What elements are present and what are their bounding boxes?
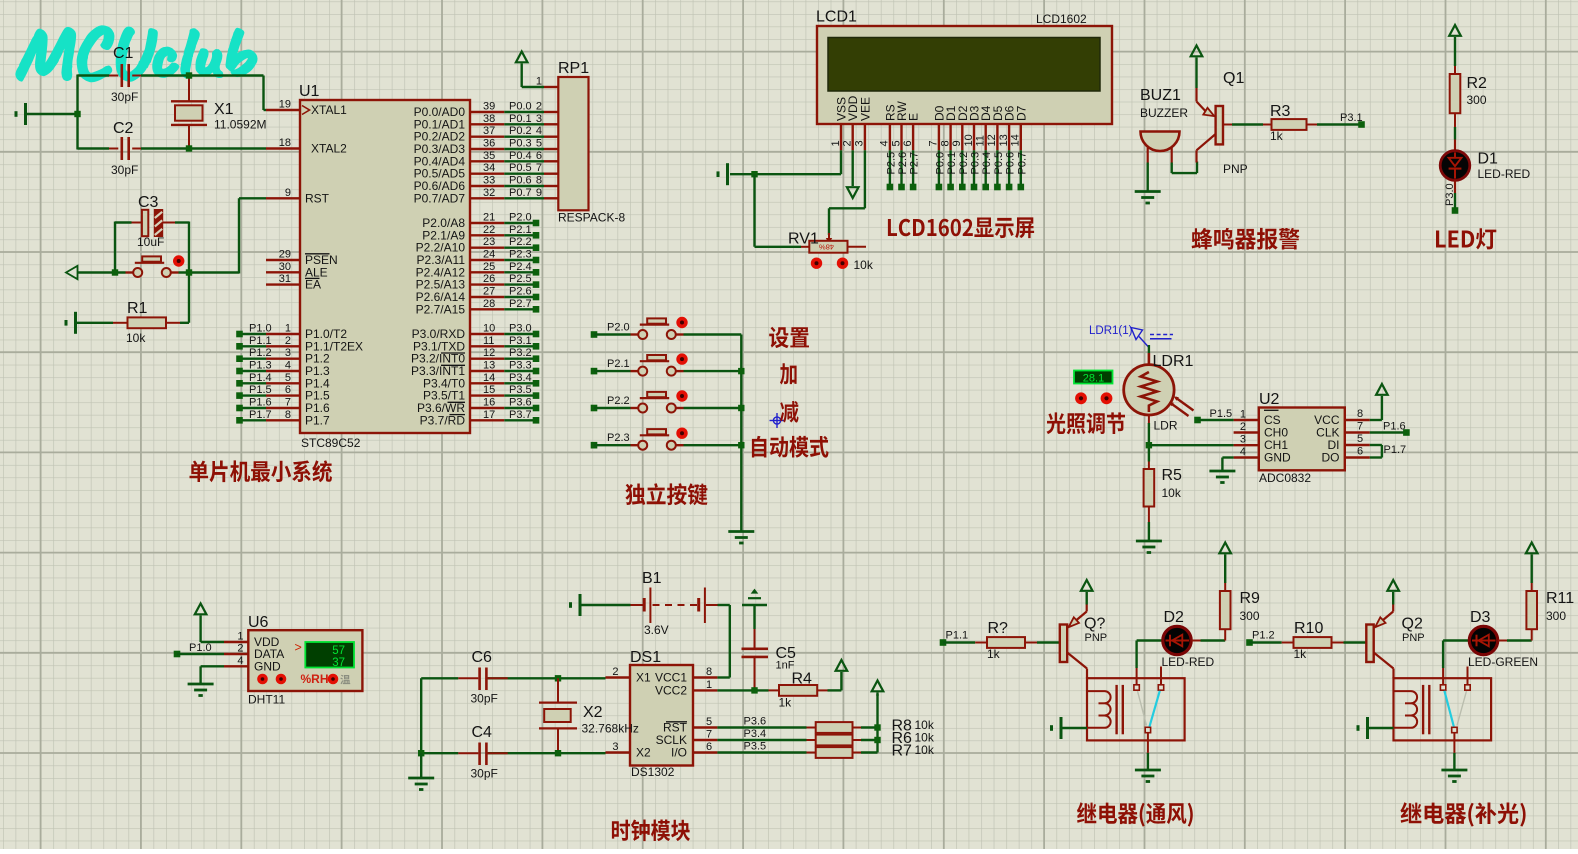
U1 pin 33 P0.6 bbox=[414, 175, 505, 194]
U1 pin 15 P3.5 bbox=[423, 384, 504, 403]
wire P1.5 terminal bbox=[236, 384, 271, 399]
transistor Q2 PNP bbox=[1366, 605, 1424, 679]
svg-text:1: 1 bbox=[285, 323, 291, 335]
U2 pin 7 CLK bbox=[1316, 421, 1370, 440]
ground (B1) bbox=[571, 594, 631, 616]
wire P1.2 to R10 bbox=[1250, 641, 1282, 643]
wire buzzer left to ground bbox=[1147, 147, 1149, 191]
svg-text:36: 36 bbox=[483, 138, 495, 150]
svg-text:X1: X1 bbox=[214, 101, 234, 118]
svg-text:P3.0: P3.0 bbox=[1444, 183, 1456, 206]
node P2.1 terminal bbox=[591, 358, 630, 374]
ground (relay pole Q2) bbox=[1441, 770, 1467, 782]
U1 pin 32 P0.7 bbox=[414, 187, 505, 206]
junction bus row4 bbox=[738, 442, 744, 448]
svg-text:8: 8 bbox=[1357, 408, 1363, 420]
svg-text:Q?: Q? bbox=[1084, 616, 1105, 633]
svg-text:BUZ1: BUZ1 bbox=[1140, 87, 1181, 104]
svg-text:8: 8 bbox=[285, 409, 291, 421]
svg-text:P2.7: P2.7 bbox=[509, 298, 532, 310]
potentiometer RV1 bbox=[788, 231, 874, 273]
LCD1 pin 6 E bbox=[902, 113, 921, 150]
svg-text:8: 8 bbox=[536, 175, 542, 187]
junction bus row3 bbox=[738, 405, 744, 411]
svg-text:2: 2 bbox=[285, 335, 291, 347]
voltage probe LDR1(1) bbox=[1089, 325, 1173, 347]
power terminal (Q1 emitter) bbox=[1191, 46, 1203, 89]
LCD1 pin 1 VSS bbox=[830, 97, 849, 150]
wire P3.1 terminal bbox=[504, 335, 539, 350]
U1 pin 19 XTAL1 bbox=[266, 99, 347, 118]
U1 pin 26 P2.5 bbox=[416, 273, 505, 292]
power terminal (U2 VCC) bbox=[1370, 384, 1388, 420]
U1 pin 6 P1.5 bbox=[266, 384, 330, 403]
svg-text:P0.5: P0.5 bbox=[509, 162, 532, 174]
wire P1.1 terminal bbox=[236, 335, 271, 350]
svg-text:P2.2: P2.2 bbox=[607, 395, 630, 407]
svg-text:LDR1: LDR1 bbox=[1153, 353, 1194, 370]
label LCD1602 display (chinese) bbox=[888, 217, 1034, 238]
svg-text:U2: U2 bbox=[1259, 391, 1280, 408]
resistor R7 bbox=[807, 743, 935, 760]
svg-text:P1.1: P1.1 bbox=[946, 630, 969, 642]
svg-text:P3.1: P3.1 bbox=[509, 335, 532, 347]
capacitor C4 bbox=[458, 724, 507, 781]
U1 pin 35 P0.4 bbox=[414, 150, 505, 169]
svg-text:P0.4: P0.4 bbox=[981, 152, 993, 175]
svg-text:P2.5: P2.5 bbox=[509, 273, 532, 285]
op U1 body STC89C52 bbox=[299, 83, 470, 450]
svg-text:1: 1 bbox=[1240, 409, 1246, 421]
wire R3 to P3.1 bbox=[1317, 123, 1362, 125]
photoresistor LDR1 bbox=[1124, 353, 1194, 433]
capacitor C5 bbox=[742, 629, 797, 690]
svg-text:P0.6: P0.6 bbox=[509, 175, 532, 187]
wire contact to D3 bbox=[1443, 641, 1469, 685]
wire button P2.2 to bus bbox=[684, 407, 742, 409]
U1 pin 34 P0.5 bbox=[414, 162, 505, 181]
svg-text:P2.2: P2.2 bbox=[509, 236, 532, 248]
svg-text:LED-RED: LED-RED bbox=[1162, 655, 1215, 669]
wire LCD RS to net P2.5 bbox=[885, 150, 897, 190]
svg-text:C1: C1 bbox=[113, 45, 134, 62]
junction reset/RST rail bbox=[186, 269, 192, 275]
node P2.0 terminal bbox=[591, 322, 630, 338]
node XTAL1/X1 junction bbox=[186, 72, 192, 78]
ground (U6) bbox=[188, 684, 214, 696]
DS1 pin 3 X2 bbox=[606, 741, 652, 760]
wire CLK to P1.6 bbox=[1370, 431, 1405, 433]
RP1 pin 4 bbox=[536, 125, 558, 137]
U1 pin 5 P1.4 bbox=[266, 372, 330, 391]
svg-text:300: 300 bbox=[1240, 609, 1260, 623]
relay coil+frame (Q?) bbox=[1087, 678, 1185, 740]
svg-text:4: 4 bbox=[237, 655, 243, 667]
svg-text:4: 4 bbox=[1240, 446, 1246, 458]
LCD1 pin 8 D1 bbox=[939, 105, 958, 150]
wire R2 to D1 bbox=[1454, 127, 1456, 152]
relay coil+frame (Q2) bbox=[1394, 678, 1492, 740]
resistor R9 300 bbox=[1220, 583, 1260, 641]
ground (button bus) bbox=[728, 532, 754, 544]
wire button common bus bbox=[740, 335, 742, 531]
RP1 pin 2 bbox=[536, 101, 558, 113]
LCD1 pin 14 D7 bbox=[1010, 105, 1029, 150]
svg-text:P3.4: P3.4 bbox=[509, 372, 532, 384]
node P1.2 terminal bbox=[1246, 630, 1274, 646]
svg-text:3: 3 bbox=[612, 741, 618, 753]
svg-text:37: 37 bbox=[483, 125, 495, 137]
wire P2.2 to button bbox=[594, 407, 631, 409]
push button (P2.0) bbox=[631, 318, 684, 339]
svg-text:D7: D7 bbox=[1014, 105, 1028, 121]
LCD1 pin 7 D0 bbox=[928, 105, 947, 150]
wire P3.7 terminal bbox=[504, 409, 539, 424]
wire P3.3 terminal bbox=[504, 360, 539, 375]
wire P1.3 terminal bbox=[236, 360, 271, 375]
DS1 pin 1 VCC2 bbox=[655, 679, 717, 698]
svg-text:57: 57 bbox=[332, 645, 345, 657]
svg-text:%RH: %RH bbox=[301, 672, 329, 686]
label relay light (chinese) bbox=[1400, 802, 1525, 826]
RP1 pin 9 bbox=[536, 187, 558, 199]
wire P1.0 terminal bbox=[236, 323, 271, 338]
svg-text:1k: 1k bbox=[987, 647, 1001, 661]
svg-text:16: 16 bbox=[483, 397, 495, 409]
svg-text:VCC2: VCC2 bbox=[655, 683, 687, 697]
svg-text:9: 9 bbox=[285, 187, 291, 199]
junction VSS/RV1 rail bbox=[751, 171, 757, 177]
svg-text:R7: R7 bbox=[892, 743, 913, 760]
LCD1 pin 4 RS bbox=[879, 104, 898, 150]
wire C4 row bbox=[421, 752, 605, 754]
label clock module (chinese) bbox=[612, 820, 690, 842]
resistor R4 bbox=[769, 671, 828, 710]
svg-text:P1.6: P1.6 bbox=[249, 397, 272, 409]
junction bus R8 bbox=[874, 724, 880, 730]
svg-text:P2.4: P2.4 bbox=[509, 261, 532, 273]
wire VSS to ground bbox=[730, 150, 841, 174]
svg-text:P2.0: P2.0 bbox=[509, 212, 532, 224]
label buzzer alarm (chinese) bbox=[1192, 228, 1300, 250]
svg-text:P0.3: P0.3 bbox=[509, 138, 532, 150]
relay blade (Q2) bbox=[1444, 691, 1466, 727]
svg-text:22: 22 bbox=[483, 224, 495, 236]
svg-text:300: 300 bbox=[1546, 609, 1566, 623]
junction LDR/R5/CH1 bbox=[1146, 442, 1152, 448]
svg-text:XTAL1: XTAL1 bbox=[311, 103, 347, 117]
svg-text:33: 33 bbox=[483, 175, 495, 187]
U2 pin 1 CS bbox=[1234, 409, 1281, 428]
svg-text:D2: D2 bbox=[1164, 609, 1185, 626]
svg-text:P0.1: P0.1 bbox=[509, 113, 532, 125]
U1 pin 28 P2.7 bbox=[416, 298, 505, 317]
svg-text:LED-GREEN: LED-GREEN bbox=[1468, 655, 1538, 669]
svg-text:6: 6 bbox=[285, 384, 291, 396]
U1 pin 31 EA bbox=[266, 273, 321, 292]
wire C3 left leg bbox=[115, 222, 132, 273]
svg-text:3: 3 bbox=[285, 347, 291, 359]
svg-text:P0.2: P0.2 bbox=[958, 152, 970, 175]
wire reset row bbox=[78, 198, 267, 273]
U6 display bbox=[295, 641, 355, 669]
svg-text:P1.7: P1.7 bbox=[1384, 444, 1407, 456]
origin marker bbox=[770, 413, 785, 428]
svg-text:30pF: 30pF bbox=[111, 90, 138, 104]
svg-text:6: 6 bbox=[902, 140, 914, 146]
wire R1 right bbox=[180, 322, 189, 324]
wire R7 to pullup bus bbox=[861, 751, 878, 753]
svg-text:VCC1: VCC1 bbox=[655, 671, 687, 685]
svg-text:U6: U6 bbox=[248, 614, 269, 631]
svg-text:BUZZER: BUZZER bbox=[1140, 106, 1188, 120]
svg-text:3.6V: 3.6V bbox=[644, 623, 669, 637]
ground (U2) bbox=[1209, 471, 1235, 483]
capacitor C3 (polarized) bbox=[132, 194, 176, 249]
svg-text:P1.0: P1.0 bbox=[249, 323, 272, 335]
wire buzzer right to Q1 collector bbox=[1172, 147, 1197, 174]
wire P2.7 terminal bbox=[504, 298, 539, 313]
svg-text:>: > bbox=[295, 641, 302, 655]
svg-text:U1: U1 bbox=[299, 83, 320, 100]
svg-text:3: 3 bbox=[536, 113, 542, 125]
svg-text:R9: R9 bbox=[1240, 590, 1261, 607]
wire P1.0 to DATA bbox=[177, 653, 224, 655]
U1 pin 36 P0.3 bbox=[414, 138, 505, 157]
power rail terminal (C5) bbox=[742, 589, 767, 629]
svg-text:28.1: 28.1 bbox=[1083, 372, 1104, 384]
op DS1 body DS1302 bbox=[630, 649, 693, 779]
svg-text:LCD1: LCD1 bbox=[816, 9, 857, 26]
svg-text:P0.4: P0.4 bbox=[509, 150, 532, 162]
node P1.5 terminal bbox=[1194, 408, 1232, 423]
U6 adjust knobs bbox=[257, 674, 286, 685]
relay contacts (Q2) bbox=[1440, 667, 1470, 733]
label auto mode (chinese) bbox=[752, 436, 829, 458]
wire DS1 to R7 bbox=[717, 741, 806, 753]
wire R6 to pullup bus bbox=[861, 739, 878, 741]
wire P2.0 to button bbox=[594, 333, 631, 335]
junction bus row2 bbox=[738, 368, 744, 374]
wire LCD D0 to net P0.0 bbox=[934, 150, 946, 190]
ground (osc rail) bbox=[408, 778, 434, 790]
wire contact to D2 bbox=[1137, 641, 1163, 685]
label independent keys (chinese) bbox=[625, 483, 707, 505]
resistor R10 1k bbox=[1282, 620, 1344, 661]
ground (LCD VSS) bbox=[718, 163, 728, 185]
svg-text:11.0592M: 11.0592M bbox=[214, 118, 266, 132]
wire rail to ground bbox=[420, 753, 422, 777]
svg-text:LDR: LDR bbox=[1154, 419, 1178, 433]
ground (relay coil Q?) bbox=[1052, 717, 1088, 739]
diode D1 LED-RED bbox=[1440, 151, 1530, 182]
wire relay pole to ground (Q?) bbox=[1147, 733, 1149, 769]
RP1 pin 8 bbox=[536, 175, 558, 187]
wire LCD D1 to net P0.1 bbox=[946, 150, 958, 190]
node P2.3 terminal bbox=[591, 432, 630, 448]
label relay fan (chinese) bbox=[1077, 802, 1193, 826]
U2 pin 3 CH1 bbox=[1234, 434, 1289, 453]
wire U6 GND bbox=[201, 666, 224, 683]
svg-text:P0.1: P0.1 bbox=[946, 152, 958, 175]
svg-text:4: 4 bbox=[536, 125, 542, 137]
button actuator dot (P2.0) bbox=[676, 317, 687, 328]
svg-text:P0.0: P0.0 bbox=[509, 101, 532, 113]
svg-text:2: 2 bbox=[1240, 421, 1246, 433]
wire C3 right leg / RST rail bbox=[175, 222, 189, 323]
wire DS1 to R6 bbox=[717, 728, 806, 740]
svg-text:P0.5: P0.5 bbox=[993, 152, 1005, 175]
U1 pin 23 P2.2 bbox=[416, 236, 505, 255]
svg-text:9: 9 bbox=[951, 140, 963, 146]
wire pullup bus bbox=[876, 694, 878, 753]
U1 pin 8 P1.7 bbox=[266, 409, 330, 428]
wire P2.3 to button bbox=[594, 444, 631, 446]
svg-text:I/O: I/O bbox=[671, 746, 687, 760]
svg-text:C2: C2 bbox=[113, 120, 134, 137]
U1 pin 4 P1.3 bbox=[266, 360, 330, 379]
svg-text:P1.7: P1.7 bbox=[305, 413, 330, 427]
svg-text:27: 27 bbox=[483, 286, 495, 298]
svg-text:28: 28 bbox=[483, 298, 495, 310]
svg-text:LCD1602: LCD1602 bbox=[1036, 12, 1087, 26]
power terminal (R9) bbox=[1219, 543, 1231, 584]
svg-text:4: 4 bbox=[879, 140, 891, 146]
svg-text:P1.1: P1.1 bbox=[249, 335, 272, 347]
svg-text:P0.2: P0.2 bbox=[509, 125, 532, 137]
power terminal (Q2) bbox=[1387, 580, 1399, 605]
svg-text:3: 3 bbox=[854, 140, 866, 146]
U6 pin 4 GND bbox=[224, 655, 281, 674]
resistor R8 bbox=[807, 718, 935, 735]
power terminal (RP1) bbox=[516, 52, 544, 88]
junction left rail bbox=[74, 111, 80, 117]
power terminal (R4) bbox=[828, 660, 848, 690]
U2 pin 8 VCC bbox=[1314, 408, 1370, 427]
svg-text:P3.5: P3.5 bbox=[509, 384, 532, 396]
U1 pin 14 P3.4 bbox=[423, 372, 504, 391]
resistor R2 bbox=[1450, 66, 1487, 127]
svg-text:VEE: VEE bbox=[858, 97, 872, 121]
ground (XTAL net) bbox=[16, 103, 78, 125]
capacitor C1 bbox=[109, 45, 141, 104]
LCD1 pin 9 D2 bbox=[951, 105, 970, 150]
transistor Q1 PNP bbox=[1197, 70, 1248, 176]
U1 pin 16 P3.6 bbox=[417, 397, 504, 416]
wire P2.0 terminal bbox=[504, 212, 539, 227]
wire button P2.3 to bus bbox=[684, 444, 742, 446]
svg-text:P3.7: P3.7 bbox=[509, 409, 532, 421]
svg-text:P1.2: P1.2 bbox=[249, 347, 272, 359]
svg-text:P3.2: P3.2 bbox=[509, 347, 532, 359]
U1 pin 25 P2.4 bbox=[416, 261, 505, 280]
ground (relay coil Q2) bbox=[1358, 717, 1394, 739]
svg-text:6: 6 bbox=[706, 741, 712, 753]
svg-text:10uF: 10uF bbox=[137, 235, 164, 249]
svg-text:Q2: Q2 bbox=[1402, 616, 1423, 633]
wire DI/DO tie P1.7 bbox=[1370, 444, 1406, 458]
svg-text:R4: R4 bbox=[792, 671, 813, 688]
ground (R5) bbox=[1136, 541, 1162, 553]
U1 pin 11 P3.1 bbox=[413, 335, 504, 354]
wire LCD D7 to net P0.7 bbox=[1016, 150, 1028, 190]
wire LCD D2 to net P0.2 bbox=[958, 150, 970, 190]
LCD1 pin 13 D6 bbox=[998, 105, 1017, 150]
junction C4/X2 bbox=[555, 750, 561, 756]
U1 pin 3 P1.2 bbox=[266, 347, 330, 366]
wire DS1 to R8 bbox=[717, 716, 806, 728]
svg-text:E: E bbox=[907, 113, 921, 121]
wire P1.5 to CS bbox=[1198, 419, 1234, 421]
svg-text:7: 7 bbox=[536, 162, 542, 174]
svg-text:R5: R5 bbox=[1162, 467, 1183, 484]
power terminal (U6 VDD) bbox=[195, 604, 224, 643]
svg-text:P1.2: P1.2 bbox=[1252, 630, 1275, 642]
LDR1 value display bbox=[1074, 371, 1113, 385]
wire P0.2 to RP1 bbox=[504, 125, 544, 137]
svg-text:13: 13 bbox=[998, 134, 1010, 146]
svg-text:11: 11 bbox=[483, 335, 494, 347]
label MCU minimal system (chinese) bbox=[190, 460, 332, 482]
LDR1 adjust knobs bbox=[1075, 392, 1112, 404]
svg-text:2: 2 bbox=[842, 140, 854, 146]
svg-text:7: 7 bbox=[928, 140, 940, 146]
diode D2 LED-RED bbox=[1162, 609, 1215, 669]
wire P2.6 terminal bbox=[504, 286, 539, 301]
U1 pin 27 P2.6 bbox=[416, 286, 505, 305]
svg-text:X2: X2 bbox=[636, 746, 651, 760]
wire P3.0 terminal bbox=[504, 323, 539, 338]
junction bus R6 bbox=[874, 737, 880, 743]
U1 pin 38 P0.1 bbox=[414, 113, 505, 132]
svg-text:P2.5: P2.5 bbox=[885, 152, 897, 175]
svg-text:1: 1 bbox=[830, 140, 842, 146]
wire XTAL2 net bbox=[78, 147, 267, 149]
wire divider to CH1 bbox=[1149, 444, 1234, 446]
power terminal (Q?) bbox=[1081, 580, 1093, 605]
svg-text:P0.3: P0.3 bbox=[970, 152, 982, 175]
svg-text:11: 11 bbox=[975, 135, 987, 146]
svg-text:DO: DO bbox=[1322, 451, 1340, 465]
U1 pin 9 RST bbox=[266, 187, 330, 206]
svg-text:12: 12 bbox=[986, 134, 998, 146]
svg-text:P1.3: P1.3 bbox=[249, 360, 272, 372]
op U6 body DHT11 bbox=[248, 614, 362, 707]
wire P3.4 terminal bbox=[504, 372, 539, 387]
wire C6 row bbox=[421, 677, 605, 679]
svg-text:30: 30 bbox=[279, 261, 291, 273]
wire osc left rail bbox=[420, 678, 422, 753]
svg-text:2: 2 bbox=[612, 666, 618, 678]
svg-text:5: 5 bbox=[285, 372, 291, 384]
U1 pin 37 P0.2 bbox=[414, 125, 505, 144]
svg-text:P0.6: P0.6 bbox=[1005, 152, 1017, 175]
svg-text:P3.0: P3.0 bbox=[509, 323, 532, 335]
node P1.1 terminal bbox=[940, 630, 968, 646]
wire LCD RW to net P2.6 bbox=[897, 150, 909, 190]
svg-text:5: 5 bbox=[536, 138, 542, 150]
wire P1.1 to R? bbox=[943, 641, 975, 643]
button actuator dot (P2.2) bbox=[676, 390, 687, 401]
wire probe to LDR1 bbox=[1148, 345, 1150, 353]
svg-text:2: 2 bbox=[536, 101, 542, 113]
buzzer BUZ1 bbox=[1140, 87, 1188, 151]
resistor R3 bbox=[1263, 103, 1317, 143]
wire P0.4 to RP1 bbox=[504, 150, 544, 162]
wire P3.6 terminal bbox=[504, 397, 539, 412]
wire P0.6 to RP1 bbox=[504, 175, 544, 187]
svg-text:300: 300 bbox=[1467, 93, 1487, 107]
